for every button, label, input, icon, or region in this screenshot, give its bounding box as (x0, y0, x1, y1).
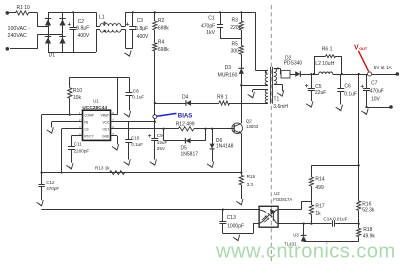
svg-text:49.9k: 49.9k (363, 234, 376, 240)
svg-text:D3: D3 (225, 65, 232, 71)
svg-text:499: 499 (315, 185, 324, 191)
svg-text:T1: T1 (274, 97, 280, 103)
svg-text:R13 1k: R13 1k (95, 165, 110, 170)
svg-text:C9: C9 (157, 133, 163, 138)
svg-text:FOD817A: FOD817A (273, 197, 292, 202)
svg-text:3.6mH: 3.6mH (273, 104, 288, 110)
svg-text:100VAC -: 100VAC - (8, 26, 31, 32)
svg-text:C12: C12 (46, 180, 55, 185)
svg-text:L2 10uH: L2 10uH (315, 61, 334, 67)
svg-text:C13: C13 (227, 215, 236, 221)
svg-text:1kV: 1kV (206, 30, 215, 36)
svg-text:52.3k: 52.3k (362, 208, 375, 214)
svg-text:C6: C6 (344, 83, 351, 89)
svg-text:UCC28C44: UCC28C44 (82, 105, 107, 110)
svg-text:470pF: 470pF (46, 186, 59, 191)
svg-text:RT/CT: RT/CT (84, 134, 93, 138)
svg-text:D1: D1 (49, 53, 56, 59)
svg-text:C3: C3 (137, 18, 144, 24)
svg-text:OUT: OUT (102, 127, 109, 131)
svg-text:300: 300 (231, 49, 240, 55)
svg-text:R4: R4 (158, 39, 165, 45)
svg-text:0.1uF: 0.1uF (344, 91, 357, 97)
svg-text:R17: R17 (315, 204, 324, 210)
svg-text:R1 10: R1 10 (17, 5, 31, 11)
svg-text:1N5817: 1N5817 (181, 151, 199, 157)
svg-text:698k: 698k (158, 47, 169, 53)
svg-text:22uF: 22uF (315, 90, 326, 96)
svg-text:400V: 400V (137, 34, 149, 40)
svg-text:C8: C8 (133, 88, 139, 93)
svg-text:1000pF: 1000pF (227, 223, 244, 229)
svg-text:5V at 1A: 5V at 1A (374, 65, 393, 70)
svg-text:R2: R2 (158, 18, 165, 24)
svg-text:25V: 25V (157, 146, 166, 151)
svg-text:R5: R5 (232, 42, 239, 48)
svg-text:2200pF: 2200pF (74, 149, 90, 154)
svg-text:220k: 220k (230, 25, 241, 31)
svg-text:BIAS: BIAS (178, 113, 193, 120)
svg-text:R15: R15 (247, 174, 256, 179)
svg-text:3.3: 3.3 (247, 182, 254, 187)
svg-text:470pF: 470pF (201, 24, 215, 30)
svg-text:400V: 400V (78, 33, 90, 39)
svg-text:OUT: OUT (359, 47, 368, 51)
svg-text:www.cntronics.com: www.cntronics.com (215, 241, 396, 263)
svg-text:6.8μF: 6.8μF (135, 26, 148, 32)
svg-text:U3: U3 (293, 232, 299, 237)
svg-text:R6 1: R6 1 (322, 47, 333, 53)
svg-text:U1: U1 (93, 98, 99, 103)
svg-text:R10: R10 (73, 88, 82, 94)
svg-text:V: V (354, 45, 359, 52)
svg-text:698k: 698k (158, 26, 169, 32)
svg-text:C10: C10 (131, 136, 140, 141)
svg-text:240VAC: 240VAC (8, 33, 28, 39)
svg-text:R14: R14 (315, 176, 324, 182)
svg-text:GND: GND (102, 134, 110, 138)
svg-text:COMP: COMP (84, 113, 94, 117)
svg-text:470uF: 470uF (370, 89, 384, 95)
svg-text:D4: D4 (182, 95, 189, 101)
svg-text:C11: C11 (74, 142, 83, 147)
svg-text:PDS340: PDS340 (284, 61, 303, 67)
svg-text:CS: CS (84, 127, 88, 131)
svg-text:1N4148: 1N4148 (216, 144, 234, 150)
svg-text:6.8μF: 6.8μF (76, 26, 89, 32)
svg-text:R12 499: R12 499 (176, 121, 195, 127)
svg-text:L1: L1 (99, 15, 105, 21)
svg-text:10V: 10V (371, 97, 381, 103)
svg-text:C7: C7 (371, 81, 378, 87)
svg-text:R9 1: R9 1 (217, 95, 228, 101)
svg-text:0.1uF: 0.1uF (131, 142, 143, 147)
svg-text:R3: R3 (232, 18, 239, 24)
svg-text:C2: C2 (78, 19, 85, 25)
svg-text:FB: FB (84, 120, 88, 124)
svg-text:VREF: VREF (101, 113, 110, 117)
svg-text:U2: U2 (274, 191, 280, 196)
svg-text:R18: R18 (363, 227, 372, 233)
svg-text:1k: 1k (315, 211, 321, 217)
svg-text:MUR160: MUR160 (218, 73, 238, 79)
svg-text:0.1uF: 0.1uF (132, 95, 144, 100)
svg-text:10k: 10k (73, 95, 82, 101)
svg-text:VCC: VCC (102, 120, 109, 124)
svg-text:C1: C1 (208, 15, 215, 21)
svg-text:C14 0.01uF: C14 0.01uF (323, 216, 347, 221)
svg-text:13003: 13003 (246, 124, 259, 129)
